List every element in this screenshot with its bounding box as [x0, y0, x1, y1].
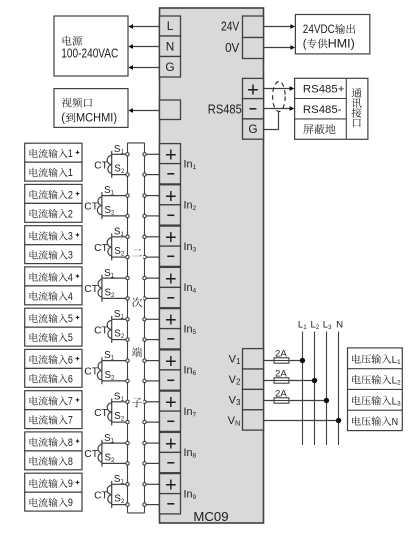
label S1 of CT5	[114, 309, 125, 321]
label S2 of CT1	[114, 164, 125, 176]
svg-text:2: 2	[68, 189, 73, 201]
label S1 of CT1	[114, 144, 125, 156]
current transformer CT7	[107, 399, 112, 426]
wire bus to terminal In5-	[145, 339, 160, 341]
net line L1	[302, 332, 304, 446]
wire N to power supply	[128, 44, 159, 49]
node junction 8a	[126, 441, 129, 444]
node junction 2d	[143, 214, 146, 217]
label S2 of CT9	[114, 494, 125, 506]
svg-text:RS485-: RS485-	[303, 104, 342, 116]
terminal In6+	[160, 350, 181, 373]
wire G to power supply	[128, 65, 159, 70]
label V2	[229, 374, 241, 387]
label box 电流输入9	[25, 492, 82, 511]
terminal 24V	[243, 16, 264, 38]
svg-text:4: 4	[68, 272, 73, 284]
fuse 2A #3	[274, 388, 289, 403]
svg-text:−: −	[167, 331, 175, 347]
svg-text:4: 4	[68, 291, 73, 303]
bus top link	[128, 142, 145, 144]
wire S1 of CT9 to bus	[112, 483, 128, 485]
svg-text:0V: 0V	[225, 41, 240, 55]
wire S2 of CT3 to bus	[112, 256, 128, 258]
node junction 7b	[126, 420, 129, 423]
node junction 8b	[126, 462, 129, 465]
svg-text:9: 9	[68, 478, 73, 490]
label CT9	[94, 490, 108, 501]
svg-text:9: 9	[68, 497, 73, 509]
svg-text:8: 8	[68, 437, 73, 449]
label CT1	[94, 160, 108, 171]
wire bus to terminal In9-	[145, 504, 160, 506]
svg-text:N: N	[392, 416, 399, 428]
secondary terminal bus right	[144, 143, 146, 513]
label V1	[229, 354, 241, 367]
node junction 7a	[126, 400, 129, 403]
wire S1 of CT1 to bus	[112, 153, 128, 155]
wire bus to terminal In7-	[145, 421, 160, 423]
label MC09	[193, 509, 228, 524]
node junction 4c	[143, 276, 146, 279]
label box 电流输入8	[25, 451, 82, 470]
node junction 1b	[126, 173, 129, 176]
wire S2 of CT2 to bus	[102, 215, 128, 217]
wire S2 of CT5 to bus	[112, 339, 128, 341]
terminal In1-	[160, 164, 181, 184]
wire V1 to L1	[264, 360, 303, 362]
svg-text:N: N	[336, 320, 343, 331]
svg-text:CT: CT	[84, 367, 98, 378]
svg-text:−: −	[167, 413, 175, 429]
label VN	[228, 415, 241, 428]
label In6	[184, 365, 197, 378]
wire S1 of CT4 to bus	[102, 277, 128, 279]
svg-text:MCHMI): MCHMI)	[76, 113, 117, 125]
svg-text:RS485: RS485	[208, 102, 242, 116]
svg-text:(: (	[61, 113, 65, 125]
net line N	[338, 332, 340, 446]
svg-text:−: −	[167, 207, 175, 223]
label box 电流输入2*	[25, 184, 82, 203]
node junction 5c	[143, 318, 146, 321]
wire video port	[128, 108, 159, 113]
RS485 communication box RS485+ RS485- 屏蔽地 通讯接口	[295, 78, 368, 139]
node junction 9d	[143, 503, 146, 506]
svg-text:L: L	[167, 19, 174, 33]
svg-text:7: 7	[68, 396, 73, 408]
label box 电流输入1*	[25, 143, 82, 162]
wire bus to terminal In1+	[145, 153, 160, 155]
wire L to power supply	[128, 24, 159, 29]
wire VN to N	[264, 420, 339, 422]
label box 电流输入3*	[25, 226, 82, 245]
node junction 4b	[126, 297, 129, 300]
svg-text:CT: CT	[94, 490, 108, 501]
svg-text:100-240VAC: 100-240VAC	[61, 47, 118, 61]
net line L2	[314, 332, 316, 446]
terminal In5-	[160, 329, 181, 349]
terminal RS485-	[243, 99, 264, 119]
svg-text:6: 6	[68, 373, 73, 385]
node junction 2a	[126, 194, 129, 197]
fuse 2A #2	[274, 368, 289, 383]
wire shield ground G	[264, 112, 279, 130]
net line L3	[326, 332, 328, 446]
label box 电流输入4	[25, 286, 82, 305]
wire S2 of CT1 to bus	[112, 174, 128, 176]
node junction 1a	[126, 153, 129, 156]
svg-text:−: −	[167, 248, 175, 264]
svg-text:2A: 2A	[275, 368, 287, 379]
label V3	[229, 394, 241, 407]
terminal In1+	[160, 144, 181, 167]
svg-text:−: −	[167, 166, 175, 182]
terminal In9-	[160, 494, 181, 514]
label CT7	[94, 408, 108, 419]
wire bus to terminal In9+	[145, 483, 160, 485]
power supply box 电源 100-240VAC	[54, 16, 128, 76]
wire RS485-	[264, 106, 295, 111]
voltage input box 电压输入	[348, 348, 403, 431]
label 24V	[221, 19, 240, 33]
svg-text:MC09: MC09	[193, 509, 228, 524]
label S1 of CT4	[104, 268, 115, 280]
node junction 7c	[143, 400, 146, 403]
label CT4	[84, 284, 98, 295]
node junction V2	[312, 378, 316, 382]
wire S1 of CT3 to bus	[112, 236, 128, 238]
wire S1 of CT8 to bus	[102, 442, 128, 444]
svg-text:5: 5	[68, 313, 73, 325]
label In7	[184, 406, 197, 419]
label RS485	[208, 102, 242, 116]
label box 电流输入4*	[25, 267, 82, 286]
label S2 of CT2	[105, 205, 116, 217]
svg-text:6: 6	[68, 354, 73, 366]
main unit MC09 body	[160, 8, 264, 523]
current transformer CT8	[98, 440, 102, 467]
node junction 7d	[143, 420, 146, 423]
wire bus to terminal In1-	[145, 174, 160, 176]
svg-text:5: 5	[68, 332, 73, 344]
label S2 of CT3	[114, 246, 125, 258]
current transformer CT2	[97, 192, 102, 219]
svg-text:(: (	[303, 39, 307, 51]
terminal In6-	[160, 370, 181, 390]
node junction 4d	[143, 297, 146, 300]
svg-text:CT: CT	[94, 325, 108, 336]
label CT2	[84, 202, 98, 213]
node junction V1	[300, 358, 304, 362]
label 0V	[225, 41, 240, 55]
video port box 视频口 (到MCHMI)	[54, 89, 128, 128]
svg-text:7: 7	[68, 415, 73, 427]
label box 电流输入3	[25, 245, 82, 264]
label box 电流输入6	[25, 368, 82, 387]
label In4	[184, 282, 197, 295]
label box 电流输入6*	[25, 349, 82, 368]
current transformer CT5	[107, 316, 112, 343]
node junction 2c	[143, 194, 146, 197]
svg-text:1: 1	[68, 167, 73, 179]
node junction 3b	[126, 255, 129, 258]
current transformer CT4	[98, 275, 102, 302]
wire S1 of CT7 to bus	[112, 401, 128, 403]
current transformer CT3	[107, 234, 112, 261]
wire S2 of CT8 to bus	[102, 462, 128, 464]
label S1 of CT3	[114, 227, 125, 239]
node junction 5b	[126, 338, 129, 341]
terminal video port	[160, 100, 181, 120]
node junction 8c	[143, 441, 146, 444]
label CT5	[94, 325, 108, 336]
wire bus to terminal In3+	[145, 236, 160, 238]
svg-text:CT: CT	[94, 408, 108, 419]
svg-text:G: G	[248, 122, 257, 136]
terminal RS485 G	[243, 119, 264, 139]
wire S1 of CT5 to bus	[112, 318, 128, 320]
wire bus to terminal In6-	[145, 380, 160, 382]
fuse 2A #1	[274, 348, 289, 363]
terminal In4-	[160, 287, 181, 307]
cable shield ellipse	[273, 82, 286, 112]
terminal In5+	[160, 309, 181, 332]
svg-text:CT: CT	[94, 160, 108, 171]
label In2	[184, 200, 197, 213]
wire bus to terminal In5+	[145, 318, 160, 320]
svg-text:CT: CT	[84, 202, 98, 213]
current transformer CT6	[97, 357, 102, 384]
terminal V1	[243, 349, 264, 369]
terminal In7-	[160, 411, 181, 431]
node junction 6c	[143, 359, 146, 362]
label box 电流输入7*	[25, 391, 82, 410]
node junction 9b	[126, 503, 129, 506]
label CT3	[94, 243, 108, 254]
wire S2 of CT4 to bus	[102, 297, 128, 299]
label S1 of CT8	[104, 433, 115, 445]
node junction 5a	[126, 318, 129, 321]
svg-text:N: N	[166, 40, 175, 54]
wire 24V to 24VDC output	[264, 24, 296, 29]
node junction 3c	[143, 235, 146, 238]
label box 电流输入1	[25, 162, 82, 181]
svg-text:−: −	[167, 496, 175, 512]
label S1 of CT6	[104, 350, 115, 362]
node junction 6b	[126, 379, 129, 382]
wire S2 of CT9 to bus	[112, 504, 128, 506]
terminal In8+	[160, 432, 181, 455]
wire bus to terminal In4-	[145, 297, 160, 299]
svg-text:2A: 2A	[275, 348, 287, 359]
label CT6	[84, 367, 98, 378]
svg-text:CT: CT	[94, 243, 108, 254]
svg-text:−: −	[167, 289, 175, 305]
svg-text:G: G	[165, 60, 174, 74]
terminal In2-	[160, 205, 181, 225]
svg-text:3: 3	[68, 250, 73, 262]
terminal G	[160, 57, 181, 78]
label box 电流输入5*	[25, 308, 82, 327]
wire RS485+	[264, 86, 295, 91]
svg-text:CT: CT	[84, 449, 98, 460]
label S2 of CT6	[105, 370, 116, 382]
node junction 6a	[126, 359, 129, 362]
wire V3 to L3	[264, 400, 327, 402]
label In8	[184, 447, 197, 460]
svg-text:2A: 2A	[275, 388, 287, 399]
label S1 of CT7	[114, 392, 125, 404]
label S2 of CT8	[105, 452, 116, 464]
wire 0V to 24VDC output	[264, 45, 296, 50]
current transformer CT9	[107, 481, 112, 508]
wire bus to terminal In8+	[145, 442, 160, 444]
label box 电流输入5	[25, 327, 82, 346]
label L1 L2 L3 N	[298, 320, 343, 331]
svg-text:2: 2	[68, 208, 73, 220]
node junction 2b	[126, 214, 129, 217]
node junction 3a	[126, 235, 129, 238]
label S2 of CT5	[114, 329, 125, 341]
node junction 1d	[143, 173, 146, 176]
node junction 4a	[126, 276, 129, 279]
svg-text:24V: 24V	[221, 19, 240, 33]
label box 电流输入2	[25, 203, 82, 222]
svg-text:CT: CT	[84, 284, 98, 295]
terminal L	[160, 16, 181, 36]
label In1	[184, 158, 197, 171]
terminal In8-	[160, 452, 181, 472]
wire bus to terminal In2-	[145, 215, 160, 217]
svg-text:−: −	[167, 372, 175, 388]
label S1 of CT9	[114, 474, 125, 486]
node junction V3	[324, 398, 328, 402]
label S2 of CT4	[105, 287, 116, 299]
label box 电流输入8*	[25, 432, 82, 451]
node junction 9c	[143, 483, 146, 486]
node junction 5d	[143, 338, 146, 341]
label 二次端子 secondary terminals	[131, 246, 144, 408]
wire bus to terminal In4+	[145, 277, 160, 279]
svg-text:HMI): HMI)	[328, 39, 355, 51]
node junction 1c	[143, 153, 146, 156]
current transformer CT1	[107, 151, 112, 178]
node junction 6d	[143, 379, 146, 382]
label In9	[184, 488, 197, 501]
terminal In2+	[160, 185, 181, 208]
terminal In3-	[160, 246, 181, 266]
label box 电流输入7	[25, 410, 82, 429]
node junction VN	[336, 418, 340, 422]
wire S2 of CT7 to bus	[112, 421, 128, 423]
svg-text:8: 8	[68, 456, 73, 468]
node junction 3d	[143, 255, 146, 258]
svg-text:RS485+: RS485+	[303, 84, 345, 96]
wire bus to terminal In7+	[145, 401, 160, 403]
node junction 9a	[126, 483, 129, 486]
terminal 0V	[243, 38, 264, 59]
label In3	[184, 241, 197, 254]
24VDC output box 24VDC输出 (专供HMI)	[295, 15, 369, 54]
label box 电流输入9*	[25, 473, 82, 492]
terminal In4+	[160, 267, 181, 290]
terminal In7+	[160, 391, 181, 414]
svg-text:−: −	[249, 101, 257, 117]
label S1 of CT2	[104, 185, 115, 197]
svg-text:−: −	[167, 454, 175, 470]
svg-text:24VDC: 24VDC	[303, 22, 335, 36]
wire S1 of CT2 to bus	[102, 195, 128, 197]
terminal RS485+	[243, 78, 264, 101]
terminal VN	[243, 410, 264, 430]
wire bus to terminal In3-	[145, 256, 160, 258]
wire bus to terminal In2+	[145, 195, 160, 197]
wire S1 of CT6 to bus	[102, 360, 128, 362]
terminal In9+	[160, 474, 181, 497]
label CT8	[84, 449, 98, 460]
wire bus to terminal In8-	[145, 462, 160, 464]
terminal V3	[243, 389, 264, 409]
terminal In3+	[160, 226, 181, 249]
svg-text:1: 1	[68, 148, 73, 160]
label S2 of CT7	[114, 411, 125, 423]
label In5	[184, 323, 197, 336]
svg-text:3: 3	[68, 231, 73, 243]
terminal N	[160, 36, 181, 57]
wire V2 to L2	[264, 380, 315, 382]
bus bottom link	[128, 512, 145, 514]
terminal V2	[243, 369, 264, 389]
node junction 8d	[143, 462, 146, 465]
wire S2 of CT6 to bus	[102, 380, 128, 382]
secondary terminal bus left	[127, 143, 129, 513]
wire bus to terminal In6+	[145, 360, 160, 362]
